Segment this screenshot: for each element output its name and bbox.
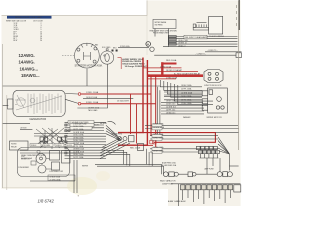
svg-text:RELAY: RELAY — [11, 146, 18, 149]
generator output stubs — [65, 94, 78, 104]
junction X wires — [34, 128, 68, 149]
svg-text:DISTRIBUTOR: DISTRIBUTOR — [50, 171, 64, 173]
svg-text:AT IGN: AT IGN — [21, 127, 28, 130]
red inline connectors — [150, 140, 156, 144]
red stub — [143, 145, 153, 147]
bulkhead plugs — [118, 136, 144, 151]
svg-text:18GA:GAUGES FEED: 18GA:GAUGES FEED — [122, 62, 145, 65]
center label stack — [65, 125, 107, 159]
svg-text:20 BLK 16.5: 20 BLK 16.5 — [166, 104, 175, 106]
grommet A — [146, 42, 151, 47]
ignition coil — [21, 154, 46, 164]
red feed elbow (thick) — [147, 62, 203, 75]
engine harness pair — [95, 164, 164, 174]
red bundle wire 4 — [155, 76, 157, 149]
grommet B — [150, 47, 154, 51]
svg-text:18 PPL 16GA: 18 PPL 16GA — [153, 133, 164, 136]
red drop wire 5 — [130, 94, 132, 134]
stain — [67, 171, 110, 195]
svg-text:2 RED 12GA: 2 RED 12GA — [166, 76, 178, 79]
svg-text:18 BLK 16GA: 18 BLK 16GA — [181, 84, 192, 87]
svg-text:STARTER MOTOR ASM.: STARTER MOTOR ASM. — [75, 65, 103, 68]
svg-text:WASHER: WASHER — [183, 116, 191, 119]
svg-text:14 BLU: 14 BLU — [56, 145, 62, 147]
svg-text:16AWG...: 16AWG... — [20, 66, 39, 71]
svg-text:WIPER WASH: WIPER WASH — [155, 21, 167, 24]
AWG gauge legend (red) — [19, 53, 40, 78]
svg-text:WIRING COLOR CODE CHART: WIRING COLOR CODE CHART — [15, 16, 43, 19]
svg-text:18 GRN 16GA: 18 GRN 16GA — [153, 126, 165, 129]
bottom boxed labels — [30, 175, 75, 181]
battery feed labels — [162, 162, 177, 167]
left drop wires — [74, 160, 77, 193]
svg-text:18 WHT 16GA: 18 WHT 16GA — [73, 142, 85, 145]
svg-text:GENERATOR: GENERATOR — [29, 117, 46, 121]
wiper caption — [207, 117, 223, 119]
generator output wire — [3, 106, 30, 124]
strip drop wires — [200, 154, 221, 175]
regulator wire — [20, 127, 32, 130]
generator internals — [15, 94, 62, 115]
svg-text:18 BLK: 18 BLK — [31, 145, 37, 147]
loop inner details — [31, 150, 52, 169]
solenoid labels — [95, 44, 111, 50]
junction terminal cluster B — [58, 137, 66, 145]
amp fuse label — [205, 168, 215, 171]
svg-text:16 GA LIGHT: 16 GA LIGHT — [117, 100, 130, 103]
battery terminals — [112, 50, 118, 52]
svg-text:20 BLK 16GA: 20 BLK 16GA — [153, 123, 164, 126]
bottom left labels — [21, 154, 46, 160]
coil wire — [77, 107, 107, 109]
starter motor caption — [75, 65, 103, 68]
svg-text:SOL FEED: SOL FEED — [102, 47, 111, 49]
svg-text:BAT: BAT — [95, 44, 98, 47]
svg-text:3 RED .10GA: 3 RED .10GA — [86, 101, 99, 104]
svg-text:18 W: 18 W — [13, 40, 17, 42]
svg-text:HORN: HORN — [11, 144, 17, 146]
svg-text:20 BLK 16GA: 20 BLK 16GA — [73, 139, 84, 142]
svg-text:DBL GRN TO HEADLAMPS: DBL GRN TO HEADLAMPS — [185, 36, 208, 39]
bottom left bus wires — [20, 151, 80, 154]
svg-text:16 PPL: 16 PPL — [67, 145, 73, 147]
svg-text:WIPER MOTOR: WIPER MOTOR — [207, 117, 223, 119]
condenser — [18, 165, 46, 173]
svg-text:14 BLK 16GA: 14 BLK 16GA — [86, 96, 98, 99]
refer note — [82, 165, 89, 167]
svg-text:18 PPL 16GA: 18 PPL 16GA — [73, 128, 84, 131]
svg-text:20 PPL 16GA: 20 PPL 16GA — [73, 156, 84, 159]
svg-text:18 BLK .9: 18 BLK .9 — [178, 45, 185, 47]
svg-text:18 BRN 16GA: 18 BRN 16GA — [73, 148, 85, 151]
svg-text:FROM REAR VIEW: FROM REAR VIEW — [153, 32, 169, 35]
radio capacitor C1 — [163, 172, 178, 177]
relay block — [193, 23, 208, 31]
harness fan wires — [157, 80, 213, 139]
switch box drops — [155, 29, 168, 47]
svg-text:20 BLU 16GA: 20 BLU 16GA — [153, 136, 164, 139]
main harness wire — [3, 69, 161, 87]
distributor caption — [50, 171, 64, 173]
wiper feed wires — [164, 90, 202, 100]
right wire rows — [161, 102, 204, 114]
red bundle wire 3 — [150, 76, 152, 136]
right paper border — [237, 0, 240, 150]
svg-text:12AWG.: 12AWG. — [19, 53, 35, 58]
svg-text:CKT CODE: CKT CODE — [33, 21, 43, 23]
svg-text:16 PPL 16.5: 16 PPL 16.5 — [166, 109, 175, 111]
center label texts — [73, 122, 87, 159]
headlight feed row — [65, 121, 107, 125]
svg-text:RADIO CAPACITOR: RADIO CAPACITOR — [160, 180, 176, 183]
generator caption — [29, 117, 46, 121]
svg-text:18 TAN 16.5: 18 TAN 16.5 — [166, 111, 175, 114]
svg-text:18 BLU .50B: 18 BLU .50B — [178, 40, 188, 42]
svg-text:- CONN TO -: - CONN TO - — [196, 54, 207, 56]
washer label — [183, 116, 191, 119]
firewall connector boxes — [181, 185, 233, 190]
svg-text:18AWG...: 18AWG... — [21, 73, 40, 78]
handwritten id — [38, 199, 55, 204]
svg-text:RESISTOR: RESISTOR — [21, 158, 30, 160]
firewall end box — [234, 185, 241, 192]
paper background — [2, 0, 241, 206]
conn-to wire upper — [205, 50, 242, 52]
inline fuse F1 — [179, 172, 218, 177]
svg-text:A BAT CABLE ASM: A BAT CABLE ASM — [168, 200, 186, 203]
red 10ga label — [166, 59, 201, 76]
svg-text:B+ RED 10GA HORN RELAY: B+ RED 10GA HORN RELAY — [174, 73, 201, 76]
headlamp label box — [184, 35, 208, 39]
red branch labels — [160, 65, 183, 79]
svg-text:20 BLK 16GA: 20 BLK 16GA — [73, 125, 84, 128]
svg-text:CONDENSER: CONDENSER — [18, 167, 30, 169]
svg-text:REFER: REFER — [82, 165, 89, 167]
harness fan labels — [181, 84, 193, 105]
lighting wire labels — [178, 40, 188, 47]
center elbow wires — [106, 149, 152, 166]
svg-text:14 GRN 16GA: 14 GRN 16GA — [73, 131, 85, 134]
distributor D1 — [50, 151, 71, 171]
red ignition feed wire — [78, 91, 151, 95]
svg-text:AMP FUSE: AMP FUSE — [205, 168, 215, 171]
firewall connector bus — [171, 184, 241, 206]
right wire labels — [166, 101, 176, 115]
red branch wires — [143, 68, 198, 79]
svg-text:18 BLK 16.5: 18 BLK 16.5 — [166, 101, 175, 103]
top label row boxes — [30, 144, 74, 147]
boxed stack labels — [70, 124, 94, 130]
switches caption — [150, 29, 178, 34]
lighting connector stack — [169, 36, 177, 46]
grommet A — [146, 42, 151, 47]
wiper motor assembly — [208, 88, 228, 113]
lower right row label boxes — [152, 124, 162, 154]
svg-text:RED .10GA: RED .10GA — [130, 147, 141, 150]
svg-text:20 AMP FUSE: 20 AMP FUSE — [162, 182, 174, 185]
svg-text:- CONN TO -: - CONN TO - — [207, 50, 218, 52]
red drop wire 6 — [136, 104, 138, 144]
svg-text:1/8 6742: 1/8 6742 — [38, 199, 55, 204]
solenoid feed wire — [106, 64, 108, 108]
plug label — [111, 132, 123, 135]
wiper plugs — [202, 91, 208, 110]
junction block J1 — [204, 70, 223, 83]
svg-text:18 BLK 16GA: 18 BLK 16GA — [153, 149, 164, 152]
svg-text:18 RED 12GA BAT: 18 RED 12GA BAT — [166, 69, 183, 72]
svg-text:L GEN BAT FUSE: L GEN BAT FUSE — [73, 122, 87, 125]
svg-text:16 BLU 16GA: 16 BLU 16GA — [73, 134, 84, 137]
connector strip boxes — [197, 146, 220, 153]
junction terminal cluster A — [40, 137, 48, 146]
horn lead — [100, 121, 116, 125]
distributor loop — [18, 148, 70, 177]
svg-text:18 TAN 16GA: 18 TAN 16GA — [73, 136, 84, 139]
svg-text:18 BLK 16GA: 18 BLK 16GA — [50, 176, 61, 179]
svg-text:RED 10GA: RED 10GA — [166, 59, 177, 62]
svg-text:GAUGE FEED: GAUGE FEED — [111, 132, 123, 135]
switches box — [153, 19, 176, 28]
svg-text:20 YEL 16GA: 20 YEL 16GA — [73, 145, 84, 148]
svg-text:24: 24 — [40, 40, 42, 42]
horn H1 — [217, 172, 232, 177]
svg-text:14AWG.: 14AWG. — [19, 60, 35, 65]
generator G1 — [8, 90, 66, 116]
conn-to wire lower — [154, 53, 241, 58]
red bundle wire 1 — [118, 58, 215, 143]
capacitor caption — [160, 180, 176, 186]
svg-text:20 GRN: 20 GRN — [44, 145, 51, 147]
body wiring caption — [209, 36, 225, 38]
lower right rows — [145, 125, 238, 152]
red accessory feed wire — [78, 100, 156, 105]
dashed lead to starter — [62, 55, 74, 57]
wire from terminals — [118, 45, 149, 48]
red connector labels — [130, 147, 141, 150]
firewall connector pins — [183, 190, 231, 204]
svg-text:18 BLK 16GA: 18 BLK 16GA — [73, 153, 84, 156]
junction block caption — [204, 85, 222, 87]
starter motor M1 — [75, 43, 100, 68]
svg-text:14 GRN 16.5: 14 GRN 16.5 — [166, 107, 176, 109]
red note text — [118, 58, 148, 70]
ignition resistor wire — [83, 96, 133, 99]
stack connector nubs — [65, 124, 70, 154]
lighting wires — [163, 37, 238, 47]
svg-text:1 RED .10GA: 1 RED .10GA — [86, 91, 99, 94]
spark plug note — [88, 106, 100, 129]
bulkhead connector box — [209, 16, 223, 34]
svg-text:B GEN FEED 2GA: B GEN FEED 2GA — [162, 164, 177, 167]
svg-text:SW FEED: SW FEED — [155, 24, 164, 26]
margin note — [78, 195, 186, 203]
svg-text:TACH LEAD: TACH LEAD — [88, 109, 98, 112]
horn relay box — [10, 141, 29, 150]
wire color code table header — [7, 16, 52, 19]
svg-text:2 RED 12GA: 2 RED 12GA — [160, 65, 172, 68]
red bundle wire 2 — [118, 60, 147, 145]
left margin border — [3, 44, 7, 190]
lower right wire labels — [153, 123, 165, 153]
svg-text:3 RED 6GA: 3 RED 6GA — [120, 45, 130, 48]
svg-text:JUNCTION BLOCK: JUNCTION BLOCK — [204, 85, 222, 87]
harness diagonals — [100, 125, 130, 158]
converging fan — [218, 137, 239, 171]
solenoid S1 — [101, 49, 114, 64]
wire color code table body — [6, 20, 43, 42]
svg-text:18 TAN 16GA: 18 TAN 16GA — [153, 146, 164, 149]
